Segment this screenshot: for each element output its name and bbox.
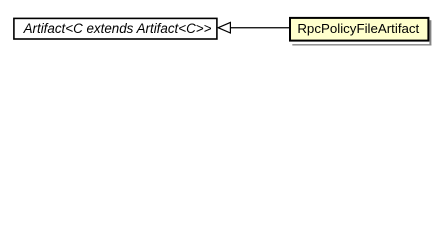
svg-text:Artifact<C extends Artifact<C>: Artifact<C extends Artifact<C>> [23, 21, 212, 36]
svg-text:RpcPolicyFileArtifact: RpcPolicyFileArtifact [297, 21, 419, 36]
